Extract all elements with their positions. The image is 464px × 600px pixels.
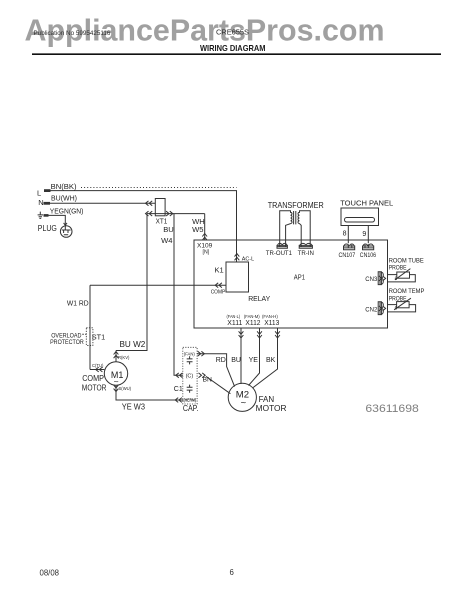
svg-text:(FAN): (FAN) [184, 351, 195, 357]
svg-text:8: 8 [343, 231, 347, 238]
svg-text:6: 6 [230, 568, 234, 577]
svg-text:C1: C1 [174, 386, 183, 393]
svg-text:CN106: CN106 [360, 252, 377, 259]
plug face details [62, 223, 71, 235]
svg-text:CRE655S: CRE655S [216, 30, 249, 37]
touch panel box [341, 208, 379, 226]
svg-text:θ: θ [395, 276, 398, 282]
svg-text:CN2: CN2 [365, 306, 377, 313]
svg-text:K1: K1 [215, 265, 224, 274]
svg-text:YE: YE [249, 357, 259, 364]
connector arrows cap C right [199, 373, 206, 378]
svg-text:PROBE: PROBE [389, 296, 407, 303]
svg-text:PLUG: PLUG [38, 224, 57, 233]
wire BU W4 riser to capacitor [174, 214, 183, 376]
connector arrows CN3 [379, 276, 386, 281]
svg-text:PROTECTOR: PROTECTOR [50, 339, 84, 346]
connector arrows XT1 lower left [146, 211, 153, 216]
svg-text:~: ~ [241, 398, 247, 409]
connector arrows cap FAN [198, 351, 205, 356]
wire M1 top to BU W2 [115, 351, 117, 362]
svg-text:08/08: 08/08 [40, 569, 60, 578]
connector arrows into XT1 from N [146, 201, 153, 206]
connector arrows M1 bottom [114, 385, 119, 392]
svg-text:TOUCH PANEL: TOUCH PANEL [340, 198, 393, 207]
svg-text:W1 RD: W1 RD [67, 299, 89, 308]
wire M1 bottom YE W3 [116, 385, 183, 400]
wire BU W2 riser [116, 214, 147, 351]
svg-text:S(WU): S(WU) [119, 386, 132, 391]
connector arrows CN2 [379, 306, 386, 311]
svg-text:TRANSFORMER: TRANSFORMER [268, 201, 324, 210]
connector arrows COMP [215, 283, 222, 288]
transformer core [294, 211, 296, 224]
transformer primary winding [280, 211, 292, 243]
connector CN107 [344, 244, 355, 250]
svg-text:CAP.: CAP. [183, 404, 199, 413]
connector arrows X109 [202, 234, 207, 241]
connector arrows XT1 right [166, 211, 173, 216]
svg-text:CN3: CN3 [365, 276, 377, 283]
terminal N bar [44, 202, 51, 205]
svg-text:ST1: ST1 [92, 332, 105, 341]
connector arrows M1 left [96, 367, 103, 372]
connector TR-OUT1 [277, 243, 287, 248]
wire fan X112 YE [249, 328, 260, 386]
touch panel slot [345, 218, 375, 223]
wire WH W5 into X109 [204, 214, 206, 240]
svg-text:N: N [38, 198, 43, 207]
svg-text:63611698: 63611698 [365, 403, 418, 415]
svg-text:YE W3: YE W3 [122, 402, 145, 412]
svg-text:MOTOR: MOTOR [256, 404, 287, 413]
svg-text:Publication No 5995425116: Publication No 5995425116 [34, 30, 111, 37]
plug circle [60, 226, 72, 238]
capacitor plates fan section [187, 356, 193, 364]
room tube probe thermistor [388, 269, 416, 282]
wire cap FAN to RD [197, 354, 235, 387]
svg-text:RD: RD [216, 357, 226, 364]
wire W1 RD down to overload [89, 285, 91, 369]
connector CN106 [363, 244, 374, 250]
svg-text:X113: X113 [264, 318, 279, 327]
svg-text:TR-OUT1: TR-OUT1 [266, 250, 293, 257]
wire BN from cap C to fan motor [206, 376, 230, 393]
svg-text:(HERM): (HERM) [184, 397, 197, 402]
compressor motor M1 circle [104, 362, 127, 385]
svg-text:BU: BU [163, 225, 174, 234]
wire L solid BN(BK) [44, 191, 237, 262]
capacitor C1 dashed box [183, 347, 197, 404]
control board AP1 outline [194, 240, 388, 328]
svg-text:YEGN(GN): YEGN(GN) [50, 206, 84, 215]
capacitor plates herm section [187, 385, 193, 393]
svg-text:PROBE: PROBE [389, 264, 407, 271]
svg-text:FAN: FAN [259, 395, 275, 404]
wire ground YEGN(GN) [44, 215, 65, 225]
svg-text:AP1: AP1 [294, 273, 305, 282]
svg-text:X112: X112 [245, 318, 260, 327]
svg-text:X111: X111 [227, 318, 242, 327]
connector TR-IN [299, 243, 312, 248]
svg-text:WIRING DIAGRAM: WIRING DIAGRAM [200, 43, 266, 53]
overload protector leader dash [82, 333, 86, 335]
svg-text:W4: W4 [161, 236, 172, 245]
transformer secondary winding [298, 211, 310, 243]
connector arrows AC-L [235, 254, 240, 261]
svg-text:BK: BK [266, 357, 276, 364]
svg-text:COMP: COMP [211, 290, 226, 296]
wire fan X111 BU [240, 328, 242, 384]
connector arrows X111 [239, 331, 244, 338]
svg-text:COMP: COMP [82, 374, 104, 383]
wire N BU(WH) [44, 202, 155, 204]
svg-text:C(TU): C(TU) [92, 363, 104, 368]
svg-text:(C): (C) [186, 374, 194, 380]
svg-text:W5: W5 [192, 225, 203, 234]
terminal L bar [44, 189, 51, 192]
svg-text:BU(WH): BU(WH) [51, 194, 77, 203]
terminal block XT1 box [155, 199, 165, 216]
relay K1 box [226, 262, 249, 292]
connector arrows cap HERM [175, 398, 182, 403]
svg-text:MOTOR: MOTOR [82, 383, 107, 392]
svg-text:R(KV): R(KV) [118, 355, 130, 360]
connector CN3 [378, 272, 383, 285]
connector arrows X112 [257, 331, 262, 338]
header rule [32, 53, 441, 55]
wire fan X113 BK [253, 328, 278, 388]
connector arrows X113 [275, 331, 280, 338]
svg-text:L: L [37, 188, 41, 197]
connector CN2 [378, 302, 383, 315]
wire L dotted line [81, 187, 237, 189]
svg-text:BN(BK): BN(BK) [51, 182, 77, 191]
terminal ground bar [44, 214, 49, 217]
svg-text:CN107: CN107 [339, 252, 356, 259]
svg-text:RELAY: RELAY [248, 294, 270, 303]
ground symbol [38, 212, 43, 219]
svg-text:TR-IN: TR-IN [298, 250, 315, 257]
svg-text:θ: θ [395, 306, 398, 312]
wire touch panel pin 9 [367, 226, 369, 244]
svg-text:AC-L: AC-L [242, 257, 254, 263]
svg-text:BU W2: BU W2 [120, 340, 146, 349]
svg-text:BN: BN [203, 376, 213, 383]
svg-text:BU: BU [231, 357, 241, 364]
svg-text:ROOM TEMP: ROOM TEMP [389, 288, 425, 295]
room temp probe thermistor [388, 298, 416, 312]
wire COMP from relay [90, 284, 226, 286]
svg-text:9: 9 [362, 231, 366, 238]
connector arrows M1 top [114, 352, 119, 359]
svg-text:ROOM TUBE: ROOM TUBE [389, 257, 424, 264]
wire XT1 through line [147, 213, 205, 215]
fan motor M2 circle [228, 383, 256, 411]
overload protector ST1 dashed box [86, 328, 93, 346]
wire into compressor M1 [90, 369, 104, 371]
svg-text:[N]: [N] [203, 249, 210, 255]
wire touch panel pin 8 [347, 226, 349, 244]
connector arrows cap C left [176, 373, 183, 378]
